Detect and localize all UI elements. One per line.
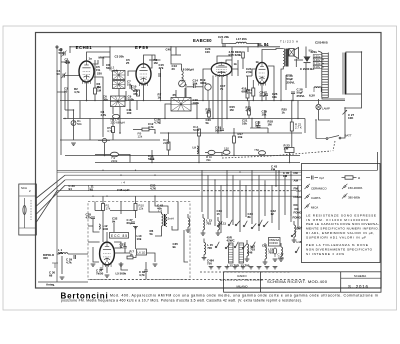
svg-text:150-300PA: 150-300PA — [348, 186, 362, 190]
label C484 label — [207, 259, 214, 266]
coil L2 osc — [111, 96, 126, 107]
label L5 value — [116, 272, 127, 276]
resistor R1fm — [102, 204, 111, 211]
svg-text:FM: FM — [294, 171, 299, 175]
label L8 value — [181, 68, 194, 72]
ground gnd coil5 — [292, 240, 297, 242]
wire sw left — [315, 120, 317, 139]
wire L8 top2 — [171, 47, 182, 64]
wire r17 dn — [233, 143, 235, 156]
svg-text:17k: 17k — [106, 207, 111, 211]
antenna jacks — [56, 46, 62, 51]
switch S1 contact 7 — [263, 221, 268, 226]
legend cap symbol — [306, 176, 324, 181]
tube EL84 V4 — [256, 42, 269, 86]
legend ceramic — [305, 184, 328, 191]
label R2 value — [74, 87, 80, 94]
wire fm h4 — [114, 247, 121, 249]
coil L8 — [182, 71, 184, 81]
wire am v14 — [304, 119, 306, 134]
switch S1 contact 5 — [251, 223, 256, 228]
label C3b value — [115, 55, 125, 59]
capacitor C31c — [123, 247, 126, 248]
label L 130 label — [206, 219, 212, 226]
wire lamp wire — [318, 99, 320, 104]
wire osc top link — [103, 56, 110, 58]
wire u5 — [208, 117, 210, 119]
svg-text:30k: 30k — [103, 98, 108, 102]
svg-text:L18: L18 — [297, 240, 302, 244]
wire drop sw 6 — [239, 180, 241, 232]
svg-text:2,5k: 2,5k — [246, 70, 252, 74]
wire dashed link switch — [222, 151, 331, 158]
wire am v3 — [136, 101, 138, 111]
transformer T1 — [280, 40, 298, 67]
switch S1 contact 9 — [225, 243, 230, 248]
svg-text:SI INTENDE ± 20%: SI INTENDE ± 20% — [306, 252, 344, 256]
wire IF2 left — [165, 104, 171, 119]
wire rail top HT — [70, 46, 280, 48]
svg-text:SCHEMA RICEVIT. MOD.400: SCHEMA RICEVIT. MOD.400 — [267, 279, 328, 284]
wire C2 branch — [61, 61, 70, 63]
resistor R9 — [138, 128, 150, 139]
label C2148B label — [315, 41, 329, 45]
wire bus line 7 — [57, 195, 298, 197]
ground gnd sw8 — [273, 267, 278, 269]
label k1 value — [234, 62, 238, 66]
wire V3 right wires — [232, 60, 238, 69]
label extra x11 — [172, 64, 178, 71]
wire osc drop 2 — [119, 107, 121, 133]
resistor R19o — [206, 150, 215, 162]
svg-text:500k: 500k — [193, 128, 200, 132]
svg-text:ALLOCCHIO BACCHINI: ALLOCCHIO BACCHINI — [220, 278, 264, 282]
wire drop sw 13 — [284, 175, 286, 215]
svg-text:FONO: FONO — [293, 216, 302, 220]
label C23 value — [205, 47, 211, 54]
legend paragraph tolerance — [306, 243, 373, 256]
svg-text:MILANO: MILANO — [236, 285, 248, 289]
label C20 value — [287, 74, 296, 84]
svg-text:25: 25 — [173, 93, 177, 97]
label C36 value — [139, 270, 145, 277]
wire c13 dn — [151, 160, 153, 163]
svg-text:15: 15 — [217, 212, 221, 216]
svg-text:L9: L9 — [193, 146, 197, 150]
label C11 value — [127, 108, 133, 115]
wire choke right — [247, 44, 259, 47]
svg-text:L17 20h: L17 20h — [236, 37, 247, 41]
label tap 220 — [311, 50, 318, 54]
label bus tag FM2 — [294, 187, 299, 191]
svg-text:4,7k: 4,7k — [101, 113, 107, 117]
svg-text:R15 620k: R15 620k — [229, 53, 242, 57]
svg-text:703: 703 — [206, 221, 211, 225]
potentiometer R1 — [71, 119, 82, 126]
tube ECC85 V5 — [100, 240, 115, 267]
label C19 value — [154, 118, 160, 125]
wire v232 a — [231, 47, 233, 56]
svg-text:5k: 5k — [150, 232, 154, 236]
wire line C1 column — [60, 49, 62, 155]
svg-text:748: 748 — [88, 188, 93, 192]
wire R3 col — [94, 60, 96, 88]
coil L5 IF2 — [171, 98, 191, 112]
tube EABC80 V3 — [193, 38, 232, 77]
wire r16 dn — [247, 98, 249, 101]
wire dip wire2 — [68, 253, 88, 255]
svg-text:9k: 9k — [173, 245, 177, 249]
ground gnd sw7 — [265, 267, 270, 269]
wire bus FM dashed — [203, 190, 291, 192]
resistor R5 — [107, 126, 115, 133]
wire bus diag 4 — [36, 191, 57, 222]
wire drop sw 5 — [232, 175, 234, 225]
capacitor C28c — [291, 92, 295, 94]
title schema — [267, 279, 328, 284]
svg-text:Mod. 400. Apparecchio AM/FM co: Mod. 400. Apparecchio AM/FM con una gamm… — [110, 293, 378, 297]
wire IF2 top2 — [185, 84, 187, 98]
switch S1 contact 4 — [243, 221, 247, 227]
svg-text:25: 25 — [126, 61, 130, 65]
label L12fm — [103, 224, 109, 231]
legend mica — [305, 203, 319, 209]
svg-text:380-680k: 380-680k — [348, 196, 361, 200]
wire c24 w — [265, 91, 267, 94]
wire fm wire 8 — [102, 197, 104, 204]
coil form L12b — [229, 243, 234, 263]
wire u3 — [264, 110, 266, 119]
label C16 value — [193, 98, 200, 105]
wire C15 drop — [160, 68, 162, 101]
label DC label2 — [295, 207, 300, 211]
capacitor C1 — [64, 52, 66, 56]
wire fm int 5 — [145, 272, 147, 280]
svg-text:50: 50 — [64, 90, 68, 94]
feedthrough bead — [98, 138, 110, 142]
label C7 value — [127, 80, 132, 87]
wire v3 drop3 — [221, 76, 223, 129]
svg-text:1k: 1k — [158, 96, 162, 100]
wire am v7 — [231, 69, 233, 76]
wire right drop2 — [345, 94, 362, 108]
wire fm v5 — [184, 230, 188, 262]
wire fm int 3 — [133, 255, 136, 258]
wire coil1 top lead — [203, 239, 205, 243]
svg-text:Kpf: Kpf — [320, 176, 325, 180]
label C24 value — [260, 91, 267, 98]
label C9 value — [128, 95, 135, 102]
label IF2 tag — [173, 93, 177, 97]
wire fm int 4 — [145, 262, 147, 270]
wire C4 to grid — [65, 71, 79, 76]
coil coil L 13 0 — [203, 218, 205, 230]
wire rail mid a — [160, 132, 302, 134]
coil coil L12 3 — [247, 244, 249, 256]
svg-text:10k: 10k — [137, 237, 142, 241]
wire el84 g1 — [246, 75, 252, 77]
wire fm wire 5 — [106, 265, 108, 273]
label 6.3V — [309, 94, 315, 98]
label extra x13 — [297, 240, 302, 244]
legend res symbol — [342, 176, 362, 180]
feedthrough bead 2 — [205, 84, 211, 101]
wire rail AVC — [65, 155, 300, 157]
wire r10 dn — [168, 150, 170, 156]
wire am v4 — [184, 88, 186, 98]
coil coil L13 4 — [265, 247, 267, 259]
wire left antenna bus — [56, 47, 58, 283]
svg-text:PER LA TOLLERANZA % DOVE: PER LA TOLLERANZA % DOVE — [306, 243, 368, 247]
label C25 value — [246, 67, 252, 74]
label extra x16 — [271, 209, 277, 216]
wire c27 wire — [344, 108, 346, 134]
label C15 value — [159, 63, 165, 70]
coil L1 in — [60, 253, 68, 254]
wire fm wire 13 — [155, 197, 168, 215]
svg-text:4,7k: 4,7k — [154, 121, 160, 125]
wire coil4 gnd lead — [264, 259, 266, 262]
resistor R11v — [137, 90, 140, 96]
ground gnd sw2 — [225, 267, 230, 269]
ground gnd fm5 — [133, 227, 138, 229]
wire drop sw 0 — [201, 170, 203, 212]
svg-text:47k: 47k — [133, 92, 138, 96]
wire u6 — [248, 115, 250, 119]
svg-text:SCA: SCA — [21, 186, 27, 190]
svg-text:LAMP: LAMP — [322, 107, 330, 111]
legend carta — [305, 194, 321, 200]
ground gnd fm2 — [91, 264, 96, 266]
svg-text:110v: 110v — [314, 65, 321, 69]
tube EF89 V2 — [135, 45, 151, 86]
capacitor C4 — [63, 74, 65, 78]
svg-text:MICA: MICA — [311, 206, 318, 210]
wire v3 drop4 — [226, 76, 228, 119]
label C22 value — [255, 121, 261, 128]
svg-text:C21 20k: C21 20k — [218, 35, 229, 39]
rectifier D1 — [304, 57, 311, 63]
wire drop sw 7 — [245, 185, 247, 217]
wire v3 drop1 — [212, 76, 214, 119]
label R3 value — [97, 82, 102, 89]
speaker — [289, 47, 299, 58]
svg-text:4,7k: 4,7k — [86, 216, 92, 220]
wire drop sw 11 — [271, 185, 273, 223]
wire rail AVC 2 — [95, 162, 300, 164]
legend box — [302, 164, 381, 263]
wire coil7 top lead — [217, 217, 219, 221]
wire T2 right line — [361, 52, 363, 94]
wire R1 top — [65, 109, 74, 111]
label labels right of V3 — [229, 50, 242, 57]
wire V1 cath down — [86, 82, 88, 101]
label DIPOLO — [43, 253, 55, 260]
label C37fm — [127, 218, 133, 225]
label C13 value — [148, 154, 155, 161]
wire coil5 gnd lead — [293, 237, 295, 240]
label extra x18 — [173, 242, 179, 249]
ground gnd fm4 — [119, 264, 124, 266]
svg-text:1k: 1k — [256, 60, 260, 64]
capacitor C47 — [273, 248, 284, 259]
wire c14 r — [195, 86, 203, 88]
wire coil1 gnd lead — [203, 255, 205, 258]
wire fm wire 10 — [121, 262, 128, 270]
wire c14 link — [187, 86, 194, 88]
svg-text:1k: 1k — [234, 62, 238, 66]
svg-text:L8 500µH: L8 500µH — [181, 68, 194, 72]
label CM label — [296, 227, 301, 231]
ground gnd coil0 — [201, 233, 206, 235]
label extra x15 — [248, 212, 254, 219]
ground gnd R1 — [71, 143, 76, 145]
wire V1 anode up — [87, 52, 111, 61]
label C43 label — [271, 165, 277, 172]
wire v3 top2 — [226, 60, 232, 63]
wire v3 r join — [231, 56, 233, 69]
svg-text:C40: C40 — [166, 48, 172, 52]
wire coil6 top lead — [280, 243, 282, 247]
wire drop sw 10 — [264, 180, 266, 216]
svg-text:NON DIVERSAMENTE SPECIFICATO: NON DIVERSAMENTE SPECIFICATO — [306, 248, 373, 252]
tick marks x4 — [121, 181, 125, 185]
label C28 value — [297, 88, 306, 98]
ground gnd coil3 — [245, 259, 250, 261]
pilot lamp — [316, 104, 330, 110]
resistor R15v — [242, 52, 245, 58]
label C32 value — [112, 217, 118, 224]
wire fm wire 7 — [93, 219, 100, 232]
wire fm wire 2 — [135, 211, 137, 219]
label extra x8 — [242, 119, 248, 126]
label C40 value — [166, 48, 172, 52]
label C6 value — [103, 95, 108, 102]
label rect value — [300, 67, 315, 71]
label Anteg — [46, 283, 55, 287]
ground gnd sw3 — [233, 267, 238, 269]
ground gnd sw4 — [241, 267, 246, 269]
label C26 value — [272, 92, 278, 99]
wire am v5 — [175, 47, 177, 55]
label C29 value — [66, 258, 72, 265]
coil coil L 6 — [281, 247, 283, 256]
svg-text:1 M: 1 M — [284, 147, 289, 151]
caption line 2 — [61, 298, 302, 302]
svg-text:SUPERIORI AD1 VALORI IN µF: SUPERIORI AD1 VALORI IN µF — [306, 235, 366, 239]
wire v3 drop2 — [217, 76, 219, 134]
label extra x9 — [126, 58, 130, 65]
wire bus diag 3 — [36, 185, 65, 214]
label L9 tag — [193, 146, 197, 150]
svg-text:60µ: 60µ — [127, 221, 132, 225]
resistor R14 — [193, 125, 201, 136]
label R16 value — [242, 87, 249, 94]
svg-text:750: 750 — [207, 261, 212, 265]
svg-text:190k: 190k — [193, 101, 200, 105]
svg-text:BATT: BATT — [345, 134, 352, 138]
coil coil L14 5 — [294, 225, 296, 237]
wire r22 dn — [291, 131, 293, 147]
wire drop sw 1 — [207, 175, 209, 219]
wire r19 l — [205, 152, 208, 154]
label L13b label — [238, 264, 250, 268]
wire r21 up — [252, 80, 254, 88]
coil L3 IF1 top — [111, 66, 125, 80]
wire r17 up — [233, 128, 235, 136]
label extra x2 — [106, 63, 111, 70]
label C14 value — [193, 79, 199, 86]
svg-text:20: 20 — [172, 67, 176, 71]
capacitor C2b — [67, 60, 69, 64]
wire V2 cath down — [143, 84, 145, 100]
label R7 value — [130, 250, 135, 257]
wire fm int 6 — [113, 223, 115, 232]
label extra x6 — [206, 118, 212, 125]
wire osc grid dn — [102, 85, 104, 137]
svg-text:MHz: MHz — [99, 56, 105, 60]
wire V1 screen — [92, 60, 98, 64]
wire speaker drop — [295, 59, 297, 67]
svg-text:1M: 1M — [268, 123, 273, 127]
svg-text:1k: 1k — [282, 111, 286, 115]
title maker — [220, 274, 264, 289]
wire rect top — [305, 52, 307, 58]
svg-text:1M: 1M — [230, 108, 235, 112]
svg-text:250VL: 250VL — [287, 80, 296, 84]
wire g2 wire — [268, 66, 274, 101]
wire dip wire — [57, 253, 60, 255]
svg-text:94: 94 — [69, 187, 73, 191]
wire u2 — [248, 101, 250, 109]
label 45R label — [227, 236, 236, 243]
wire v3 top1 — [217, 56, 232, 63]
wire c43 drop — [275, 170, 277, 186]
svg-text:C46: C46 — [247, 251, 253, 255]
wire bus line 2 — [57, 171, 302, 173]
wire coil0 top lead — [202, 214, 204, 218]
label bus tag FM0 — [294, 171, 299, 175]
wire rect out — [305, 63, 307, 88]
wire coil4 top lead — [264, 243, 266, 247]
coil coil L11 7 — [218, 221, 220, 230]
wire am v8 — [237, 69, 239, 76]
wire v243 b — [242, 58, 244, 69]
ground gnd coil4 — [263, 262, 268, 264]
label R25 value — [282, 108, 288, 115]
svg-text:ECH81: ECH81 — [76, 45, 93, 50]
wire r16 up — [247, 76, 249, 90]
svg-text:6db: 6db — [58, 251, 63, 255]
wire u1 — [208, 101, 210, 111]
wire bus diag 1 — [36, 175, 65, 198]
label C1 value — [59, 48, 64, 55]
FM unit dashed box — [88, 202, 190, 280]
label C45 label — [283, 171, 289, 178]
coil coil L 15 1 — [204, 243, 206, 255]
svg-text:39k: 39k — [206, 158, 211, 162]
wire coil3 gnd lead — [246, 256, 248, 259]
wire fm wire 14 — [93, 247, 99, 262]
label R8 value — [154, 58, 159, 65]
svg-text:6/40: 6/40 — [103, 227, 109, 231]
svg-text:C3 20k: C3 20k — [115, 55, 125, 59]
wire r9 link2 — [149, 130, 155, 134]
wire drop sw 12 — [278, 170, 280, 230]
svg-text:50k: 50k — [106, 66, 111, 70]
transformer T2 primary — [309, 49, 329, 98]
wire coil2 top lead — [187, 214, 189, 218]
